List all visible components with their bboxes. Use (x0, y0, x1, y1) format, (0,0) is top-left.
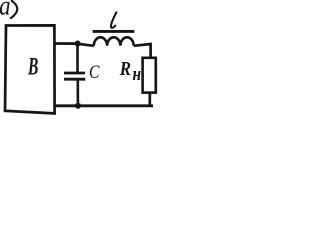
wire inductor to resistor corner (134, 44, 151, 58)
svg-text:R: R (119, 57, 131, 80)
resistor RH rectangle (143, 58, 156, 93)
svg-text:C: C (89, 62, 100, 83)
resistor bottom lead wire (148, 93, 151, 106)
node junction dot bottom (75, 103, 81, 109)
wire top: block to node (56, 42, 79, 45)
svg-text:а: а (0, 0, 11, 21)
svg-text:В: В (27, 53, 38, 81)
svg-text:н: н (133, 64, 142, 85)
label L (111, 12, 116, 28)
bottom return wire (56, 104, 153, 107)
source block B rectangle (5, 25, 55, 113)
capacitor C top lead wire (76, 44, 79, 73)
wire node to inductor (78, 44, 94, 46)
capacitor C plates (64, 72, 85, 75)
label a) figure tag (0, 0, 17, 21)
capacitor C bottom lead wire (77, 80, 80, 106)
inductor core bar (93, 30, 135, 33)
node junction dot top (75, 41, 81, 47)
inductor L coil (94, 37, 134, 46)
